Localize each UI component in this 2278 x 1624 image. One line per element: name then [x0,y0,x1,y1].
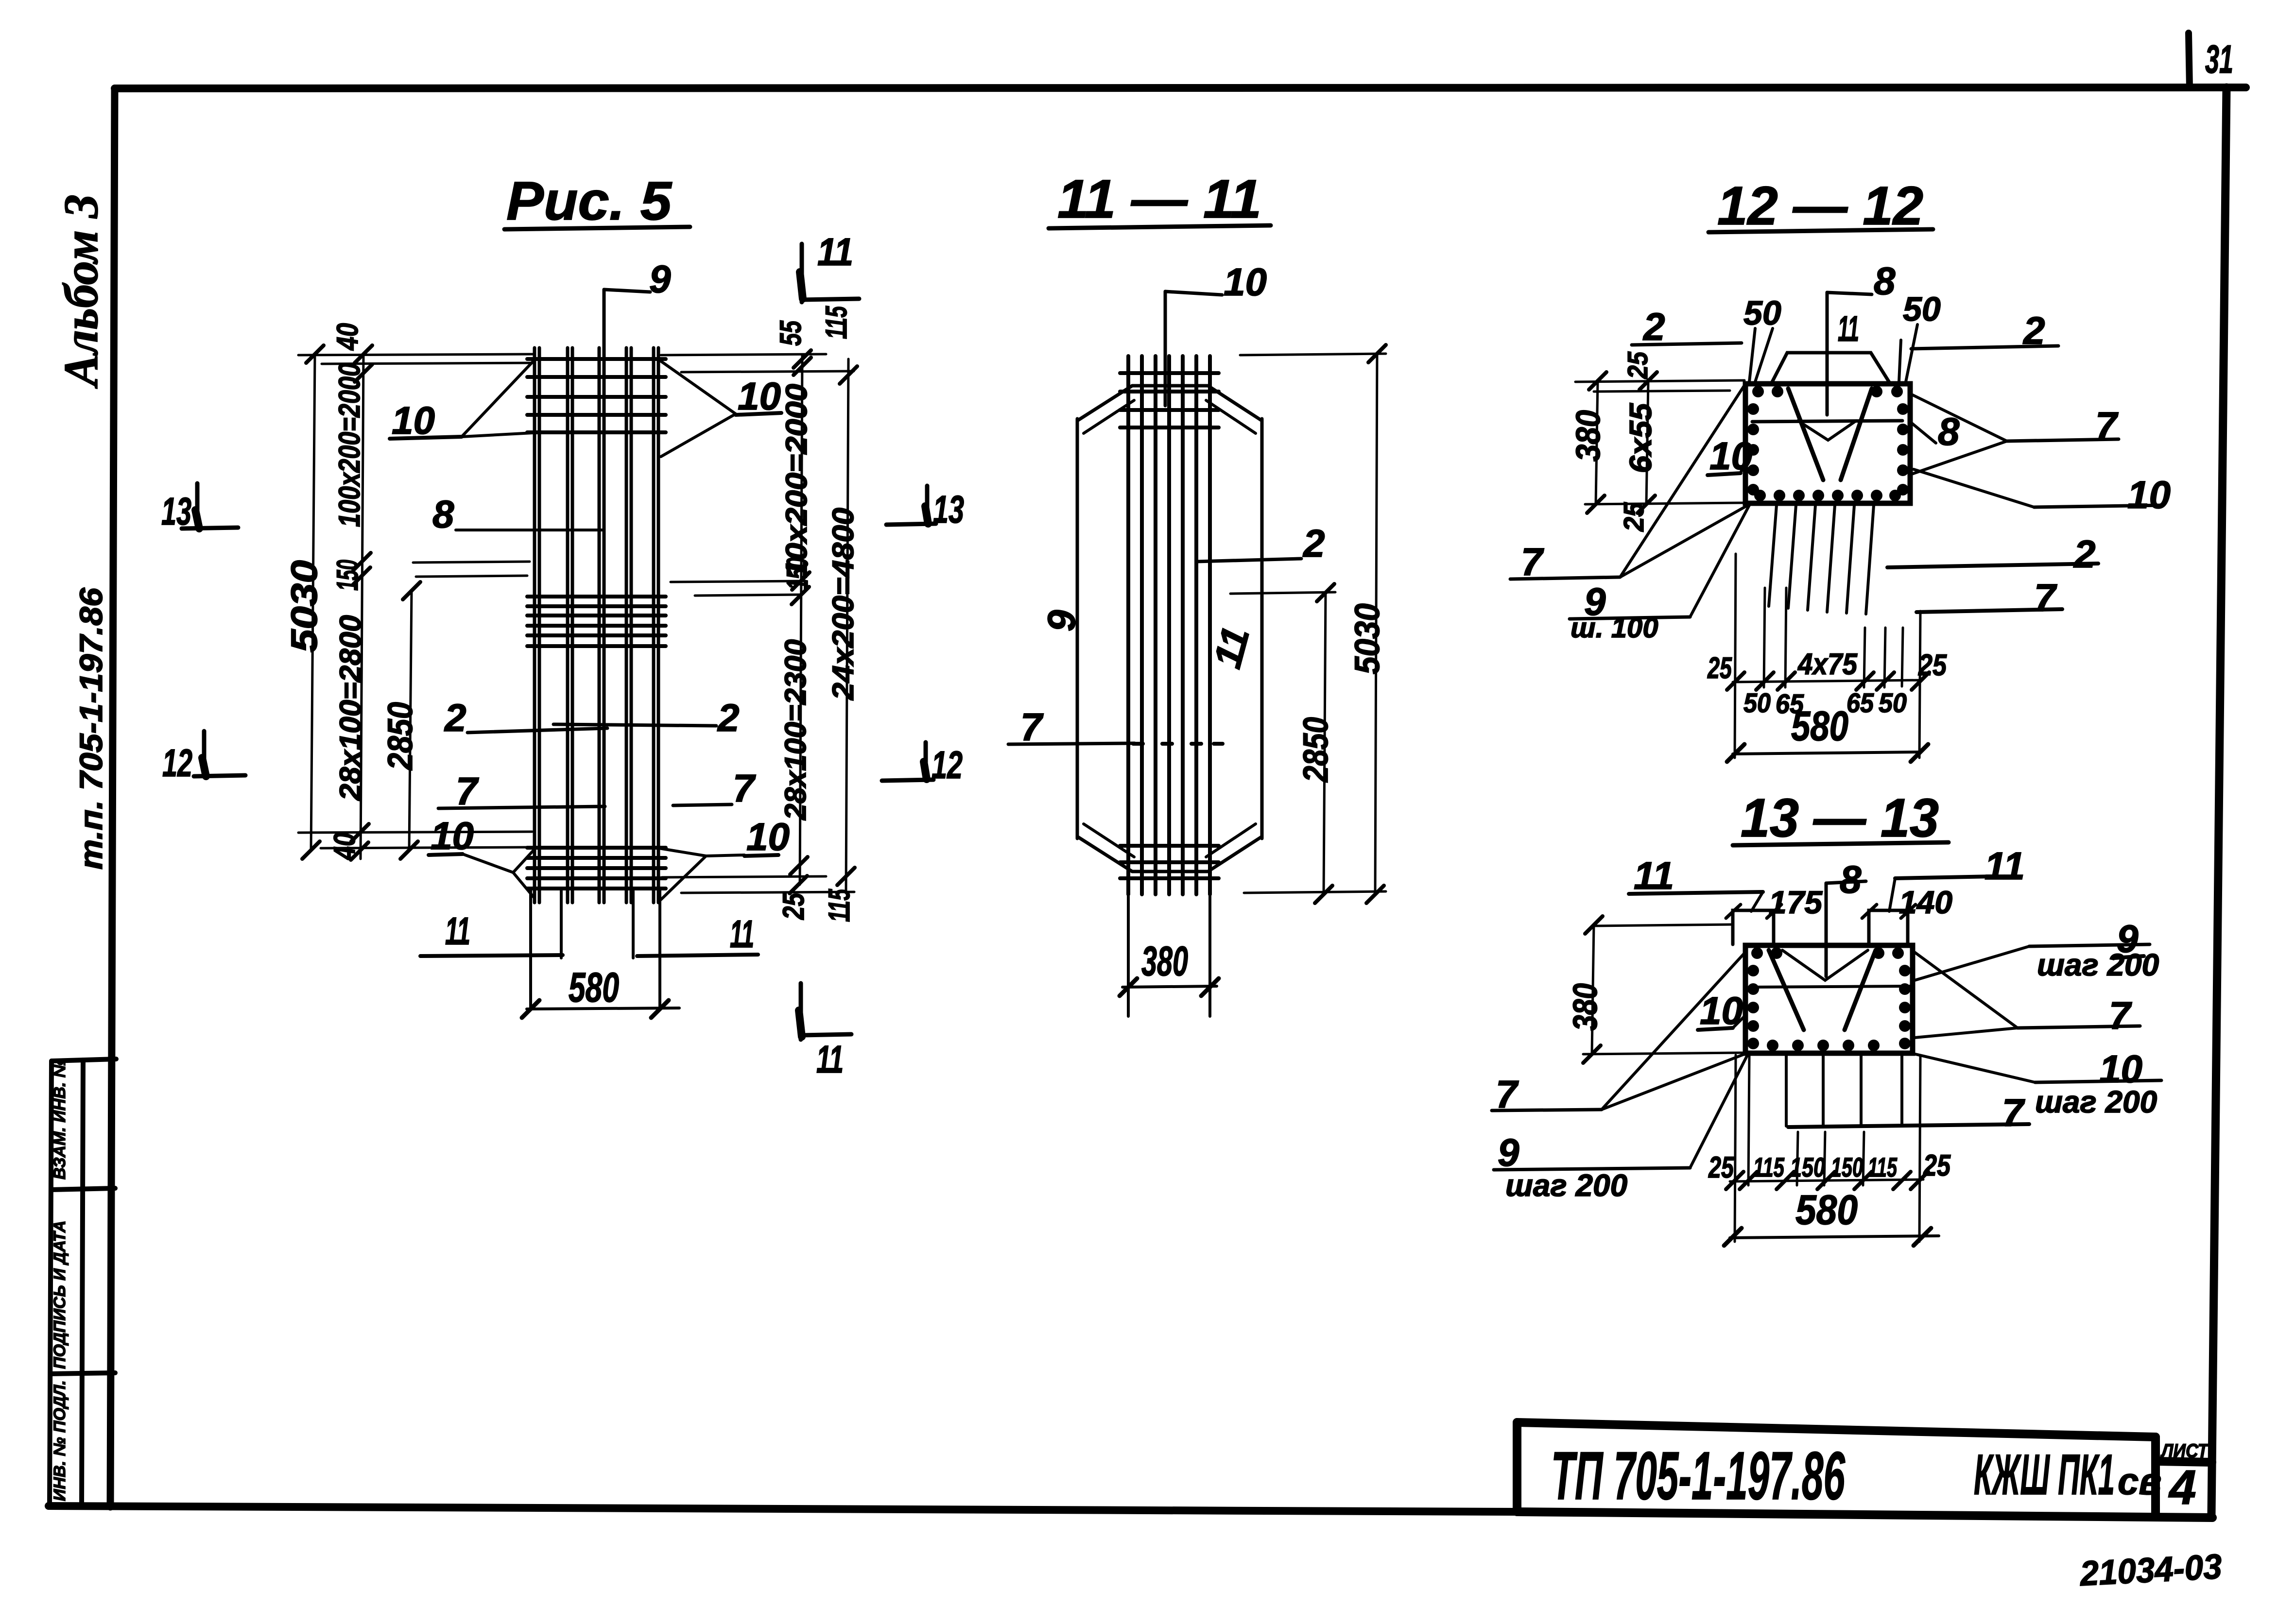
svg-text:2: 2 [717,696,740,739]
svg-text:7: 7 [2002,1091,2025,1134]
svg-text:11: 11 [816,1038,844,1081]
svg-text:21034-03: 21034-03 [2078,1547,2223,1593]
svg-text:25: 25 [1622,351,1654,379]
svg-text:10: 10 [1224,260,1267,304]
section 11 leader right [637,955,758,956]
svg-text:ВЗАМ. ИНВ. №: ВЗАМ. ИНВ. № [51,1059,69,1180]
left extension lines middle [413,562,530,563]
svg-text:580: 580 [1795,1187,1858,1233]
svg-text:2: 2 [1642,305,1665,348]
inner hooked bar right [1841,389,1872,480]
svg-text:50: 50 [1743,294,1781,332]
svg-text:65: 65 [1847,687,1874,718]
dim 580 12-12 [1733,752,1920,754]
svg-text:шаг 200: шаг 200 [2035,1084,2157,1119]
svg-text:115: 115 [820,306,853,339]
dim 5030 extension top [1240,354,1386,355]
section mark 13 mid [886,524,936,525]
svg-text:2: 2 [1302,522,1325,565]
svg-text:7: 7 [2034,576,2057,619]
svg-text:11: 11 [730,912,754,956]
svg-text:140: 140 [1899,884,1952,920]
panel top-left chamfer [1077,386,1132,421]
title block outline [1517,1422,2212,1518]
svg-text:10: 10 [2127,473,2171,516]
svg-text:ТП 705-1-197.86: ТП 705-1-197.86 [1551,1437,1846,1514]
left extension lines bottom [298,832,532,833]
svg-text:8: 8 [1874,259,1896,303]
Ris.5 title underline [504,227,690,229]
cage middle tie block [527,597,666,646]
svg-text:11: 11 [1985,844,2025,888]
panel top ties [1120,373,1219,427]
bent bar box right [1869,910,1908,944]
svg-text:ЛИСТ: ЛИСТ [2160,1440,2209,1462]
right extension lines bottom [662,876,826,877]
svg-text:25: 25 [1918,649,1947,682]
section mark 11 top [800,244,804,302]
svg-text:150: 150 [781,558,814,590]
svg-text:12: 12 [162,741,192,785]
panel outline left edge [1076,419,1079,838]
dim 5030 extension bottom [1244,891,1386,893]
detail 12-12 underline [1708,229,1933,232]
svg-text:11: 11 [1634,854,1674,897]
svg-text:т.п. 705-1-197.86: т.п. 705-1-197.86 [73,587,109,870]
dimension 2850 line [409,591,412,850]
svg-text:580: 580 [1791,703,1848,750]
cage top tie block [527,359,666,432]
svg-text:8: 8 [1938,410,1960,453]
panel bottom-right chamfer [1208,837,1262,872]
inner hooked bar left [1788,389,1823,480]
svg-text:4х75: 4х75 [1797,648,1858,681]
svg-text:11: 11 [817,230,853,274]
svg-text:25: 25 [1923,1149,1951,1182]
svg-text:св: св [2118,1460,2162,1503]
bars below rect 13-13 [1786,1055,1902,1126]
svg-text:10: 10 [392,399,435,442]
right extension lines top [661,354,826,355]
label 9 top leader [604,290,650,292]
frame border bottom [49,1506,1517,1512]
svg-text:Альбом 3: Альбом 3 [54,194,108,389]
panel bottom edge [1132,870,1208,873]
dim 380 line [1122,986,1217,987]
dim 580 13-13 [1730,1236,1939,1238]
svg-text:13 — 13: 13 — 13 [1741,787,1939,848]
frame border right [2211,87,2226,1515]
right extension lines middle [671,581,806,582]
tie dashes at 7 level [1133,742,1143,746]
svg-text:100х200=2000: 100х200=2000 [333,363,366,527]
svg-text:2: 2 [444,696,466,739]
rebar dots 13-13 [1747,947,1911,1051]
svg-text:13: 13 [933,488,964,531]
svg-text:175: 175 [1769,884,1823,920]
detail rect 13-13 [1745,945,1913,1053]
svg-text:9: 9 [1040,610,1083,632]
svg-text:40: 40 [328,833,362,861]
svg-text:50: 50 [1903,290,1941,328]
left dim 380 13-13 [1592,925,1594,1054]
svg-text:7: 7 [733,767,756,810]
dimension 580 bottom [527,1008,679,1009]
svg-text:2850: 2850 [1296,717,1335,783]
left dim 6x55 line [1646,381,1648,504]
dim 380 extensions [1127,896,1130,1016]
detail rect 12-12 [1745,384,1910,503]
svg-text:ш. 100: ш. 100 [1570,612,1658,644]
svg-text:7: 7 [2109,994,2132,1037]
section mark 12 mid [882,780,933,781]
svg-text:150: 150 [1831,1152,1863,1182]
bottom dim extensions 12-12 [1735,554,1736,758]
section mark 11 bottom [799,983,803,1040]
bottom tick row 13-13 [1730,1180,1923,1181]
rebar dots 12-12 [1747,386,1909,501]
svg-text:10х200=2000: 10х200=2000 [780,384,813,578]
svg-text:115: 115 [823,889,856,922]
panel bottom-left chamfer [1077,837,1132,872]
panel bottom ties [1120,846,1219,878]
svg-text:2: 2 [2073,532,2096,576]
svg-text:380: 380 [1569,410,1607,462]
svg-text:50: 50 [1743,687,1771,718]
svg-text:ИНВ. № ПОДЛ.: ИНВ. № ПОДЛ. [51,1380,69,1501]
svg-text:55: 55 [774,320,808,346]
svg-text:380: 380 [1141,938,1188,985]
svg-text:4: 4 [2168,1460,2196,1515]
right dim line R1 [800,355,802,885]
svg-text:580: 580 [569,964,619,1011]
svg-text:9: 9 [649,257,671,301]
cage longitudinal bars [535,348,658,903]
panel top edge [1132,384,1208,388]
inner hooked bar left 13-13 [1769,950,1804,1030]
label 10 leader [1165,291,1222,295]
left dim 380 line [1596,381,1598,504]
svg-text:12: 12 [932,743,963,786]
svg-text:10: 10 [746,815,790,858]
lifting key trapezoid [1771,353,1890,384]
detail 13-13 underline [1733,842,1949,845]
page number tick [2189,33,2190,87]
frame border left [110,88,115,1507]
inner hooked bar right 13-13 [1845,950,1876,1030]
left stamp table [50,1059,116,1507]
bottom tick row 12-12 [1733,680,1922,682]
svg-text:2850: 2850 [381,702,420,771]
dimension chain line B [361,354,363,859]
svg-text:11 — 11: 11 — 11 [1057,169,1261,229]
inner V 13-13 [1782,950,1868,980]
svg-text:6х55: 6х55 [1623,403,1658,473]
dim 5030 line [1375,353,1377,894]
bars below rect 12-12 [1769,505,1874,614]
svg-text:150: 150 [1790,1152,1825,1182]
dim 2850 extension [1230,592,1335,594]
svg-text:11: 11 [445,909,470,953]
dim 2850 line [1324,593,1326,894]
svg-text:шаг 200: шаг 200 [1505,1168,1627,1203]
svg-text:10: 10 [431,814,474,857]
bent bar box left [1733,910,1774,944]
extension lines left 13-13 [1592,924,1733,926]
leaders from left corners 13-13 [1602,953,1744,1110]
inner chord [1752,421,1902,422]
panel top-right chamfer [1208,386,1262,421]
svg-text:8: 8 [432,493,454,536]
svg-text:шаг 200: шаг 200 [2037,947,2159,982]
svg-text:11: 11 [1838,308,1859,349]
dimension 5030 line [311,354,315,850]
svg-text:7: 7 [1020,705,1044,749]
section 11 leader left [420,955,563,956]
svg-text:25: 25 [1707,651,1732,685]
svg-text:КЖШ ПК1: КЖШ ПК1 [1974,1443,2115,1507]
svg-text:5030: 5030 [284,560,325,652]
svg-text:40: 40 [331,323,364,351]
svg-text:8: 8 [1840,858,1862,901]
svg-text:380: 380 [1566,983,1604,1031]
inner V [1798,421,1856,440]
section cut verticals below cage [529,889,532,1009]
panel outline right edge [1260,419,1264,838]
left extension lines top [298,354,534,355]
section 11-11 title underline [1049,225,1271,228]
leaders from left bottom corner [1620,384,1745,577]
svg-text:ПОДПИСЬ И ДАТА: ПОДПИСЬ И ДАТА [51,1220,69,1369]
svg-text:150: 150 [331,560,364,591]
box corner ticks [1726,905,1741,918]
svg-text:25: 25 [1618,502,1650,532]
svg-text:115: 115 [1868,1152,1898,1182]
right dim line R2 [846,359,848,893]
svg-text:31: 31 [2205,37,2233,82]
extension lines left 12-12 [1575,380,1744,382]
frame border top [115,87,2246,88]
bottom dim extensions 13-13 [1735,1055,1736,1242]
svg-text:28х100=2300: 28х100=2300 [779,639,812,821]
svg-text:115: 115 [1753,1152,1785,1182]
svg-text:50: 50 [1879,687,1907,718]
inner chord 13-13 [1749,986,1910,987]
svg-text:24х200=4800: 24х200=4800 [827,508,860,701]
panel bars bundle [1128,356,1210,894]
cage bottom tie block [527,848,666,889]
svg-text:5030: 5030 [1348,603,1387,674]
svg-text:25: 25 [777,892,811,920]
svg-text:28х100=2800: 28х100=2800 [334,615,367,801]
svg-text:25: 25 [1708,1151,1734,1184]
svg-text:12 — 12: 12 — 12 [1717,175,1923,236]
svg-text:Рис. 5: Рис. 5 [506,171,673,231]
